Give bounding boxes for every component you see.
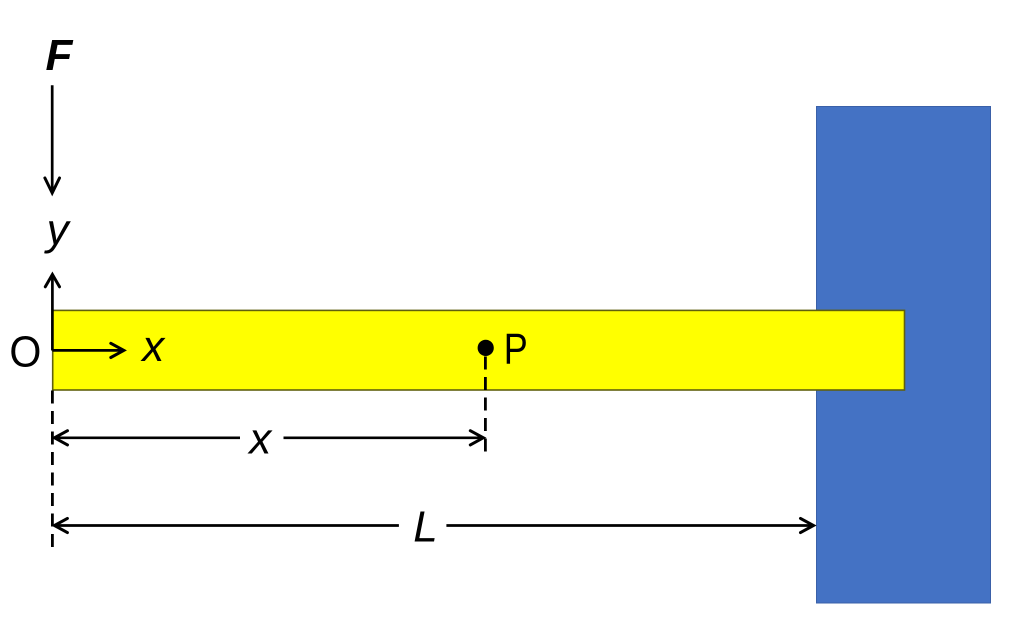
svg-text:L: L [413, 503, 437, 552]
svg-text:P: P [504, 325, 528, 374]
svg-text:O: O [9, 328, 41, 377]
svg-text:F: F [46, 31, 74, 80]
svg-text:x: x [140, 322, 166, 371]
svg-text:y: y [44, 206, 72, 255]
svg-text:x: x [247, 414, 273, 463]
